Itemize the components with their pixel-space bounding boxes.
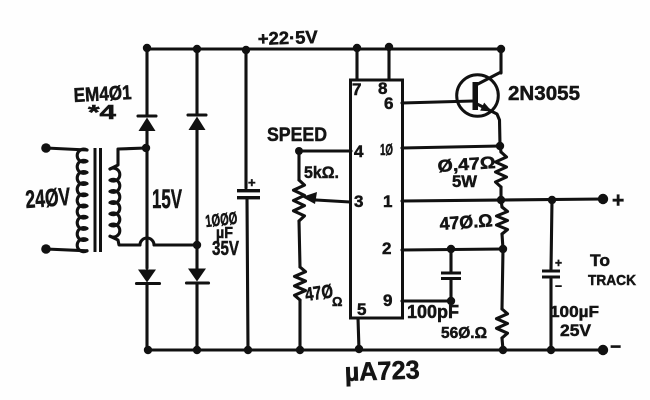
wire bridge leg A upper xyxy=(145,49,148,116)
node pin1/100uF xyxy=(548,196,556,204)
node bottom rail B xyxy=(193,346,201,354)
svg-text:4: 4 xyxy=(354,142,364,161)
svg-text:47Ø: 47Ø xyxy=(304,281,335,306)
svg-text:56Ø.Ω: 56Ø.Ω xyxy=(441,325,487,342)
node top rail pin8 xyxy=(385,43,393,51)
wire 560 to bottom rail xyxy=(502,338,503,350)
wire pot top lead xyxy=(297,151,300,180)
potentiometer VR1 5k xyxy=(294,180,305,221)
node emitter xyxy=(496,142,504,150)
node top rail B xyxy=(193,45,201,53)
svg-text:+: + xyxy=(555,256,562,270)
svg-text:5kΩ.: 5kΩ. xyxy=(304,163,339,182)
pin 7 xyxy=(352,48,361,99)
svg-text:SPEED: SPEED xyxy=(267,125,327,146)
wire 100uF top lead xyxy=(551,200,552,269)
svg-text:+: + xyxy=(248,175,256,190)
wire leg A lower xyxy=(147,284,148,350)
pin 8 xyxy=(378,47,389,98)
svg-text:−: − xyxy=(610,337,621,358)
node pot top xyxy=(295,147,303,155)
svg-text:To: To xyxy=(590,251,610,270)
wire pin4 to pot xyxy=(299,149,351,152)
wire secondary top lead xyxy=(110,148,146,169)
wire bottom rail xyxy=(148,348,603,351)
wire collector drop xyxy=(499,49,502,73)
svg-text:µA723: µA723 xyxy=(344,354,420,387)
svg-text:47Ø.Ω: 47Ø.Ω xyxy=(439,210,493,234)
svg-text:6: 6 xyxy=(384,94,393,113)
diode D4 xyxy=(187,269,209,284)
svg-text:2N3055: 2N3055 xyxy=(508,83,580,105)
node top rail cap xyxy=(242,46,250,54)
svg-text:−: − xyxy=(555,279,562,293)
label TO TRACK xyxy=(588,251,636,289)
wire 470L bottom lead xyxy=(298,300,301,350)
svg-text:Ω: Ω xyxy=(332,294,342,309)
label 0.47 5W xyxy=(437,153,496,191)
diode D3 xyxy=(137,270,160,284)
transistor Q1 2N3055 xyxy=(457,72,501,145)
svg-text:+22·5V: +22·5V xyxy=(257,27,318,49)
svg-text:100µF: 100µF xyxy=(550,304,599,321)
wire pin2 node to 560 xyxy=(502,249,503,309)
resistor R1 470 left xyxy=(295,267,306,300)
node top rail collector xyxy=(497,45,505,53)
transformer T1 secondary winding xyxy=(110,168,120,237)
resistor R2 0.47 5W xyxy=(496,152,507,187)
wire top rail +22.5V xyxy=(147,47,501,50)
node bottom rail cap1000 xyxy=(244,346,252,354)
node top rail pin7 xyxy=(353,44,361,52)
node secondary bottom on leg B xyxy=(193,241,201,249)
op-amp U1 uA723 body xyxy=(351,80,403,318)
node pin2/470R xyxy=(499,245,507,253)
pin 5 xyxy=(357,300,366,350)
transformer core xyxy=(94,148,103,252)
node bottom rail 470L xyxy=(296,346,304,354)
node top rail left xyxy=(143,44,151,52)
wire bridge leg B upper xyxy=(195,49,198,115)
svg-text:TRACK: TRACK xyxy=(588,272,636,289)
node pin2/100pF xyxy=(447,245,455,253)
diode D1 xyxy=(138,116,156,131)
wire primary top lead xyxy=(46,148,87,150)
svg-text:1Ø: 1Ø xyxy=(380,142,393,159)
svg-text:24ØV: 24ØV xyxy=(24,183,71,214)
node pin1/R047 xyxy=(497,196,505,204)
terminal primary bottom xyxy=(41,244,51,254)
label 100uF 25V xyxy=(550,304,599,340)
diode D2 xyxy=(188,115,206,130)
svg-text:35V: 35V xyxy=(212,238,239,260)
node bottom rail 560 xyxy=(499,346,507,354)
wire 100pF top lead xyxy=(449,249,452,271)
wire 100uF bottom lead xyxy=(549,279,552,350)
terminal minus output xyxy=(598,345,608,355)
node bottom rail pin5 xyxy=(355,345,363,353)
svg-text:1: 1 xyxy=(383,192,392,211)
wire 1000uF top lead xyxy=(244,50,247,188)
wire leg B lower xyxy=(195,283,198,350)
wire pin3 wiper arrow xyxy=(302,192,350,204)
svg-text:3: 3 xyxy=(354,192,363,211)
resistor R3 470 right xyxy=(497,207,508,234)
wire leg B middle xyxy=(195,130,198,269)
label 470 left xyxy=(304,281,343,309)
pin 10 xyxy=(380,142,500,159)
transformer T1 primary winding xyxy=(77,149,87,252)
wire pot bottom lead xyxy=(299,221,300,267)
node bottom rail left corner xyxy=(144,346,152,354)
node bottom rail 100uF xyxy=(547,346,555,354)
svg-text:5W: 5W xyxy=(452,172,478,191)
capacitor C1 1000uF xyxy=(237,175,260,199)
terminal primary top xyxy=(41,143,51,153)
terminal plus output xyxy=(598,194,608,204)
pin 1 xyxy=(383,192,603,211)
wire 1000uF bottom lead xyxy=(247,199,248,350)
capacitor C2 100pF xyxy=(441,272,461,281)
pin 9 xyxy=(383,291,451,310)
label 1000uF 35V xyxy=(204,209,239,260)
capacitor C3 100uF xyxy=(542,256,562,293)
pin 2 xyxy=(382,239,503,258)
svg-text:9: 9 xyxy=(383,291,392,310)
node secondary top on leg A xyxy=(142,144,150,152)
svg-text:+: + xyxy=(612,189,624,212)
wire leg A middle xyxy=(145,131,148,268)
resistor R4 560 xyxy=(497,309,508,338)
wire 100pF bottom lead xyxy=(449,280,452,301)
pin 6 xyxy=(384,94,473,113)
svg-text:7: 7 xyxy=(352,80,361,99)
wire primary bottom lead xyxy=(46,249,87,251)
svg-text:100pF: 100pF xyxy=(407,302,459,322)
wire 470R to pin2 line xyxy=(502,234,503,249)
svg-text:5: 5 xyxy=(357,300,366,319)
wire emitter to R047 xyxy=(500,146,501,152)
wire secondary bottom lead with hop xyxy=(110,236,197,245)
wire R047 to pin1 line xyxy=(499,187,502,200)
svg-text:2: 2 xyxy=(382,239,391,258)
svg-text:15V: 15V xyxy=(152,184,182,214)
node pin9/100pF xyxy=(447,297,455,305)
wire pin1 node to 470R xyxy=(501,200,502,207)
svg-text:*4: *4 xyxy=(88,102,117,124)
svg-text:25V: 25V xyxy=(560,321,592,340)
